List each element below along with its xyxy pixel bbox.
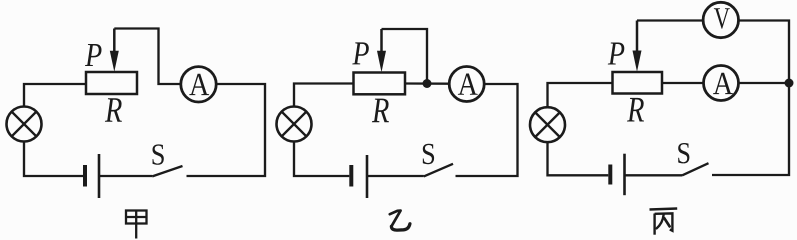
wire junction down to bottom bbox=[712, 83, 789, 175]
label P (circuit 1) bbox=[85, 44, 102, 66]
label S3 bbox=[678, 143, 689, 163]
lamp EL2 bbox=[277, 107, 312, 142]
wire lamp2 bottom to battery bbox=[294, 142, 349, 177]
wire lamp1 top to R1 left bbox=[24, 84, 86, 107]
label S2 bbox=[423, 144, 434, 164]
resistor R3 (rheostat body) bbox=[613, 72, 663, 94]
label 乙 bbox=[390, 211, 410, 231]
battery B1 bbox=[85, 154, 99, 198]
lamp EL1 bbox=[7, 107, 42, 142]
wire lamp3 bottom to battery bbox=[548, 142, 609, 175]
label 丙 bbox=[650, 209, 678, 235]
slider arrow P2 bbox=[377, 29, 386, 72]
battery B3 bbox=[610, 154, 624, 196]
wire R3 right to ammeter bbox=[662, 82, 704, 84]
switch S2 blade bbox=[424, 164, 453, 177]
label P (circuit 3) bbox=[608, 43, 625, 65]
wire slider2 loop to junction bbox=[382, 29, 428, 84]
resistor R1 (rheostat body) bbox=[86, 72, 137, 94]
wire lamp2 top to R2 left bbox=[294, 84, 354, 108]
battery B2 bbox=[351, 155, 367, 198]
junction node (circuit 3) bbox=[785, 79, 794, 88]
wire ammeter3 right to junction bbox=[739, 82, 790, 84]
label R3 bbox=[627, 98, 644, 122]
wire ammeter1 right side down to bottom bbox=[187, 84, 266, 176]
label R2 bbox=[372, 99, 389, 123]
switch S3 blade bbox=[682, 163, 709, 175]
slider arrow P3 bbox=[633, 21, 642, 72]
wire voltmeter right down to junction bbox=[739, 21, 790, 84]
ammeter A2 bbox=[449, 67, 484, 102]
wire R2 right to ammeter bbox=[405, 82, 449, 85]
ammeter A1 bbox=[181, 67, 216, 102]
wire lamp3 top to R3 left bbox=[548, 83, 613, 108]
voltmeter V bbox=[703, 2, 738, 37]
resistor R2 (rheostat body) bbox=[354, 73, 406, 95]
wire slider3 up to voltmeter branch bbox=[637, 19, 703, 21]
ammeter A3 bbox=[704, 66, 739, 101]
wire battery2 to switch pivot bbox=[367, 175, 424, 177]
wire slider1 loop to ammeter bbox=[114, 29, 181, 85]
label R1 bbox=[105, 98, 122, 122]
label 甲 bbox=[126, 211, 147, 239]
wire ammeter2 right side down to bottom bbox=[456, 84, 518, 176]
lamp EL3 bbox=[530, 107, 565, 142]
label S1 bbox=[153, 144, 164, 164]
wire battery1 to switch pivot bbox=[99, 175, 152, 177]
wire lamp1 bottom to battery bbox=[24, 142, 83, 177]
slider arrow P1 bbox=[110, 29, 119, 72]
label P (circuit 2) bbox=[352, 42, 369, 64]
junction node (circuit 2) bbox=[423, 79, 432, 88]
wire battery3 to switch pivot bbox=[625, 174, 683, 176]
switch S1 blade bbox=[152, 166, 182, 176]
